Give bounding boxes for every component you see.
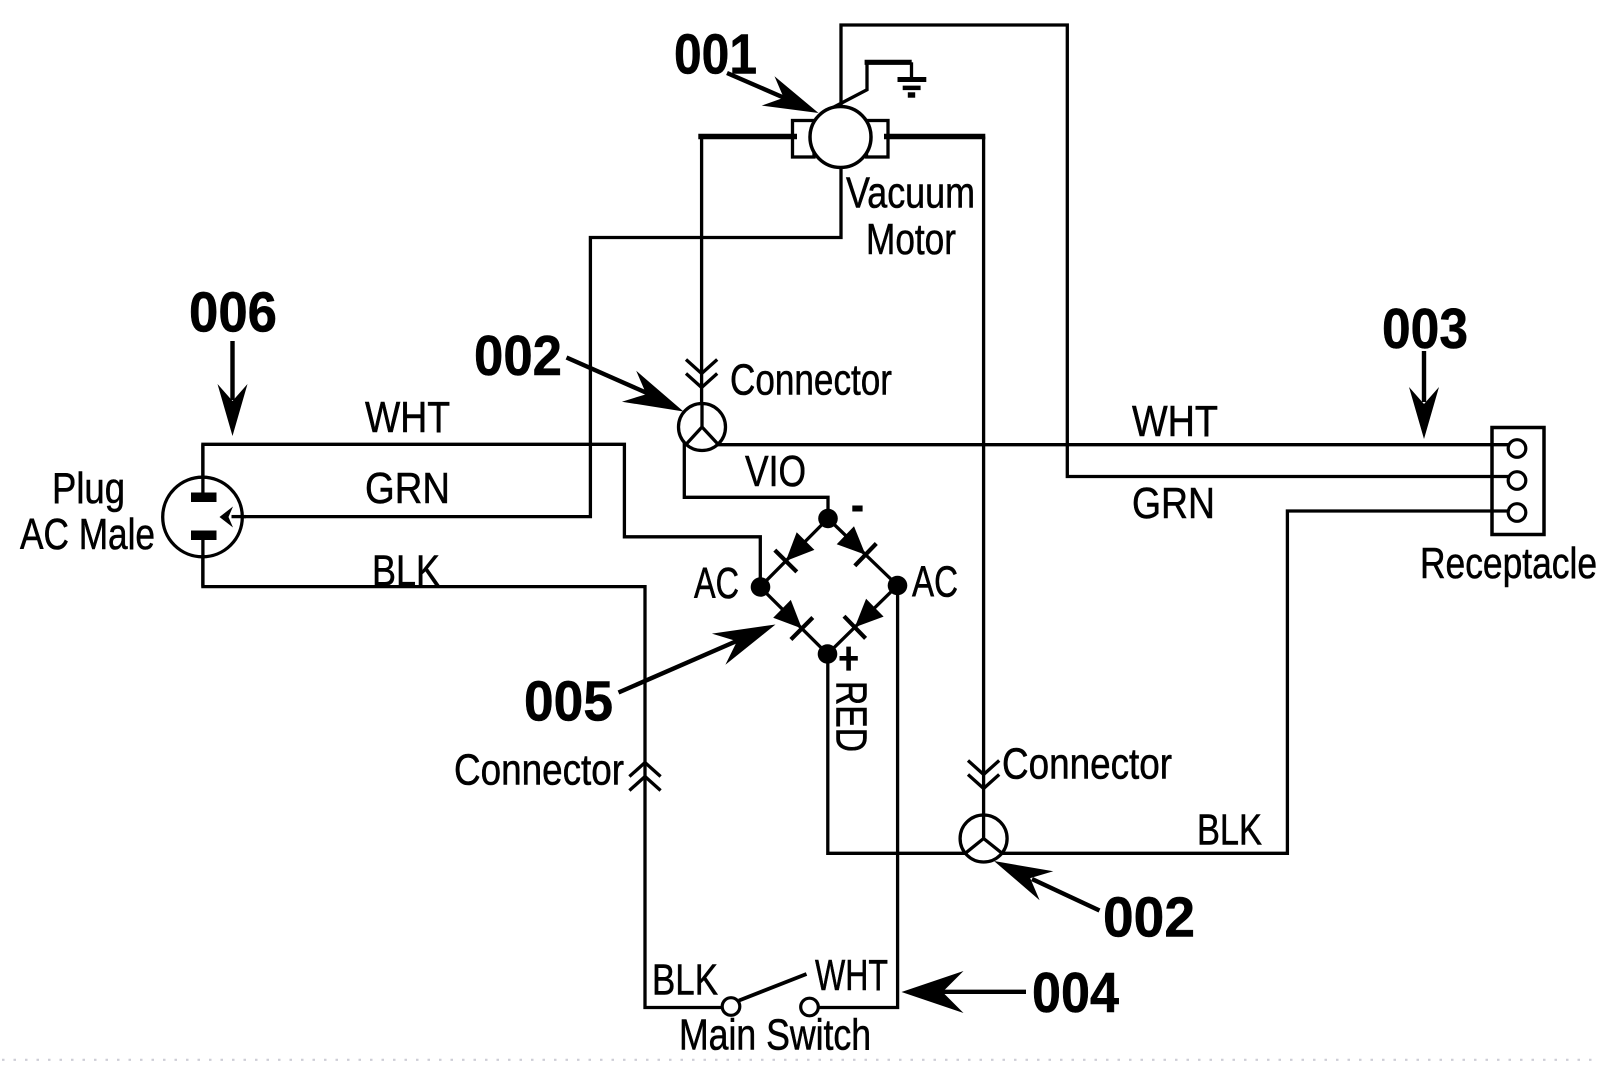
callout arrow 001 head <box>762 76 819 113</box>
bridge rectifier BR1: diamond edges <box>760 519 898 655</box>
svg-text:AC Male: AC Male <box>20 510 155 559</box>
plug P1: GRN arrowhead <box>220 507 234 528</box>
svg-text:BLK: BLK <box>652 956 718 1005</box>
bridge node minus (top) <box>818 509 838 529</box>
callout arrow 003 head <box>1409 387 1439 439</box>
wire BLK: plug bottom lead to main switch left contact <box>203 539 724 1008</box>
callout arrow 001 tail <box>727 73 788 100</box>
wire VIO: connector 002 down to bridge minus node <box>684 441 828 512</box>
connector J4 (left, inline): chevrons <box>629 763 660 791</box>
svg-text:WHT: WHT <box>815 951 888 1000</box>
connector J2 (upper): chevrons <box>686 360 717 388</box>
diode D1 (top-left) cathode bar <box>775 550 797 572</box>
wire BLK: lower connector 002 to receptacle bottom pin <box>996 511 1512 853</box>
svg-text:Vacuum: Vacuum <box>846 169 975 218</box>
wire GRN: motor top via top rail to receptacle middle pin <box>841 25 1512 477</box>
svg-text:005: 005 <box>524 670 613 734</box>
vacuum motor U1: body circle <box>810 107 871 168</box>
receptacle J1: body <box>1492 428 1544 535</box>
svg-text:GRN: GRN <box>365 464 450 513</box>
diode D1 (top-left) arrow <box>786 532 815 561</box>
plug AC male P1: body circle <box>163 477 243 557</box>
wire: vertical from motor left lead down to connector 002 <box>700 137 703 405</box>
vacuum motor U1: right brush bracket <box>867 121 889 158</box>
diode D4 (bottom-right) cathode bar <box>844 616 866 638</box>
diode D3 (bottom-left) cathode bar <box>791 618 813 640</box>
svg-text:001: 001 <box>674 23 757 87</box>
wire: motor right lead (thick) <box>884 134 985 139</box>
svg-text:RED: RED <box>827 681 876 752</box>
plug P1: top lead into body <box>201 444 204 494</box>
bridge node plus (bottom) <box>818 644 838 664</box>
diode D2 (top-right) arrow <box>837 526 866 555</box>
vacuum motor U1: left brush bracket <box>793 121 815 158</box>
connector J2 (upper): Y splitter <box>686 404 719 445</box>
svg-text:AC: AC <box>694 559 739 608</box>
receptacle J1: pin 1 <box>1508 440 1526 458</box>
ground: hook drop <box>910 62 913 78</box>
wire WHT: plug top lead to bridge AC left node <box>203 444 760 580</box>
ground: motor lead hook <box>822 62 868 114</box>
svg-text:002: 002 <box>1103 886 1195 950</box>
callout arrow 002 upper head <box>622 371 684 412</box>
callout arrow 002 upper tail <box>567 358 649 394</box>
callout arrow 006 tail <box>230 341 234 400</box>
wire RED: bridge plus node down to lower connector 002 <box>828 662 970 853</box>
callout arrow 006 head <box>218 384 248 436</box>
svg-text:Plug: Plug <box>52 464 125 513</box>
wire GRN: motor bottom loop to plug (via x590) <box>244 166 841 517</box>
diode D3 (bottom-left) arrow <box>773 600 802 629</box>
ground: bar 2 <box>903 86 921 91</box>
bridge minus sign <box>852 506 862 512</box>
svg-text:WHT: WHT <box>1132 397 1218 446</box>
svg-text:WHT: WHT <box>365 393 450 442</box>
plug P1: bottom prong <box>191 531 217 541</box>
svg-text:Connector: Connector <box>1002 740 1172 789</box>
diode D4 (bottom-right) arrow <box>855 599 884 628</box>
bridge node AC left <box>751 577 771 597</box>
ground: bar 1 <box>898 77 927 82</box>
connector J3 (lower): chevrons <box>968 761 999 789</box>
callout arrow 004 head <box>902 971 964 1013</box>
wire: motor left lead (thick) <box>698 134 797 139</box>
svg-text:002: 002 <box>474 324 562 388</box>
callout arrow 002 lower tail <box>1032 879 1100 911</box>
svg-text:GRN: GRN <box>1132 479 1215 528</box>
svg-text:003: 003 <box>1382 297 1468 361</box>
main switch S1: lever <box>739 974 807 1001</box>
callout arrow 005 head <box>712 625 776 665</box>
svg-text:AC: AC <box>912 558 958 607</box>
wire: bridge AC right node down to main switch right contact <box>818 594 898 1008</box>
svg-text:Connector: Connector <box>454 746 624 795</box>
svg-text:Receptacle: Receptacle <box>1420 539 1597 588</box>
plug P1: GRN wire stub into body <box>232 515 247 518</box>
svg-text:BLK: BLK <box>1197 806 1262 855</box>
ground: hook top bar <box>865 60 912 65</box>
callout arrow 003 tail <box>1422 351 1426 402</box>
connector J3 (lower): circle <box>960 815 1007 862</box>
callout arrow 005 tail <box>619 640 740 693</box>
callout arrow 004 tail <box>940 990 1026 994</box>
main switch S1: right contact <box>801 998 819 1016</box>
svg-text:VIO: VIO <box>745 447 806 496</box>
bridge node AC right <box>888 576 908 596</box>
wire WHT: connector 002 to receptacle top pin <box>690 443 1512 446</box>
callout arrow 002 lower head <box>994 861 1053 900</box>
scan artifact dotted line <box>2 1059 1600 1061</box>
receptacle J1: pin 2 <box>1508 472 1526 490</box>
receptacle J1: pin 3 <box>1508 504 1526 522</box>
bridge plus sign <box>840 647 858 671</box>
plug P1: top prong <box>191 493 217 503</box>
connector J2 (upper): circle <box>679 404 726 451</box>
svg-text:Main Switch: Main Switch <box>679 1011 871 1060</box>
connector J3 (lower): Y splitter <box>966 815 1002 853</box>
svg-text:BLK: BLK <box>372 547 440 596</box>
wire: vertical from motor right lead down to lower connector 002 <box>982 137 985 817</box>
svg-text:006: 006 <box>189 281 277 345</box>
diode D2 (top-right) cathode bar <box>855 544 877 566</box>
svg-text:Connector: Connector <box>730 356 892 405</box>
svg-text:Motor: Motor <box>866 215 956 264</box>
plug P1: bottom lead out of body <box>201 538 204 587</box>
main switch S1: left contact <box>722 998 740 1016</box>
ground: bar 3 dot <box>908 92 915 97</box>
svg-text:004: 004 <box>1032 961 1119 1025</box>
